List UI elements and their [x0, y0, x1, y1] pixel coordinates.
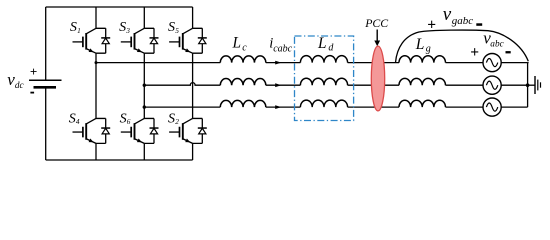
- svg-text:S: S: [120, 111, 127, 126]
- svg-text:6: 6: [127, 117, 131, 126]
- svg-text:gabc: gabc: [452, 15, 474, 27]
- svg-text:abc: abc: [490, 40, 504, 50]
- svg-text:cabc: cabc: [273, 43, 292, 54]
- svg-text:1: 1: [77, 26, 81, 35]
- svg-text:v: v: [443, 4, 452, 25]
- svg-text:+: +: [30, 64, 37, 79]
- svg-text:+: +: [427, 16, 436, 33]
- svg-text:L: L: [317, 35, 327, 52]
- svg-text:S: S: [168, 111, 175, 126]
- svg-text:5: 5: [175, 26, 179, 35]
- svg-text:S: S: [168, 20, 175, 35]
- svg-text:4: 4: [76, 117, 80, 126]
- svg-text:2: 2: [175, 117, 179, 126]
- svg-text:L: L: [415, 36, 425, 53]
- svg-text:g: g: [426, 43, 431, 54]
- svg-text:3: 3: [125, 26, 130, 35]
- svg-text:S: S: [119, 20, 126, 35]
- svg-text:dc: dc: [15, 81, 25, 91]
- svg-text:S: S: [69, 111, 76, 126]
- svg-text:c: c: [242, 42, 247, 53]
- svg-text:+: +: [470, 44, 479, 61]
- svg-text:L: L: [232, 35, 242, 52]
- svg-text:S: S: [70, 20, 77, 35]
- svg-text:PCC: PCC: [364, 16, 388, 30]
